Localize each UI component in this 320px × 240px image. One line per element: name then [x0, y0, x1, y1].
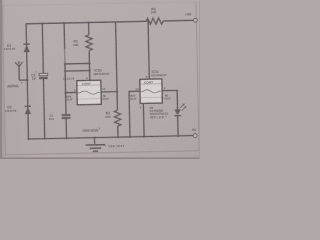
- wire: IC1c CONT pin to rail: [148, 21, 149, 79]
- paper background: [0, 0, 200, 159]
- junction: lower stub at R1 node: [88, 69, 90, 71]
- wire: IC1b right pin stub to junction: [101, 91, 117, 93]
- junction: pins 12,13,14 net on top rail: [63, 22, 65, 24]
- junction: lower stub at pins net: [64, 70, 66, 72]
- wire: pins 12,13,14 vertical net lower segment: [65, 64, 66, 114]
- diode D1: [23, 44, 30, 52]
- junction: R1 on top rail: [87, 21, 89, 23]
- junction: diode net at 0V rail: [27, 138, 29, 140]
- node: 0V terminal: [193, 134, 197, 138]
- scan grain overlay: [0, 0, 200, 159]
- junction: LED cathode at 0V rail: [177, 135, 179, 137]
- aerial symbol: [15, 61, 23, 67]
- wire: C2 lower lead to 0V rail: [65, 119, 67, 138]
- wire: C1 lower lead to 0V rail: [43, 79, 44, 139]
- capacitor C1: [35, 70, 48, 79]
- wire: LED cathode lead to 0V rail: [177, 116, 179, 136]
- junction: IC1b left pin at pins net: [64, 91, 66, 93]
- junction: IC1c left pin dropper at 0V rail: [129, 136, 131, 138]
- node: +9V terminal: [193, 18, 197, 22]
- op-amp block IC1b: [77, 80, 101, 105]
- junction: C1 branch on top rail: [41, 22, 43, 24]
- wire: +V top rail: [26, 21, 147, 24]
- wire: IC1c bottom pin dropper to 0V rail: [142, 103, 145, 136]
- wire: left vertical (aerial/diode net): [26, 24, 28, 139]
- page shading gradient: [0, 0, 200, 159]
- junction: C1 lead at 0V rail: [44, 138, 46, 140]
- junction: upper stub at pins net: [64, 63, 66, 65]
- op-amp block IC1c: [140, 79, 162, 104]
- wire: IC1b left pin stub: [66, 91, 77, 93]
- wire: R1 top lead from rail: [88, 23, 90, 35]
- diode D2: [25, 106, 32, 114]
- wire: rail dropper to IC1b output node: [116, 22, 118, 110]
- wire: IC1c left pin stub: [129, 90, 140, 92]
- page edge shadows: [0, 0, 2, 159]
- wire: IC1c left pin dropper to 0V rail: [128, 91, 131, 137]
- wire: pins 12,13,14 vertical net faint middle segment: [64, 49, 66, 64]
- junction: C2 lead at 0V rail: [65, 137, 67, 139]
- wire: top rail right segment to +9V terminal: [163, 19, 193, 22]
- junction: upper stub at R1 node: [88, 62, 90, 64]
- junction: IC1c CONT dropper on top rail: [147, 20, 149, 22]
- wire: 0V bottom rail: [28, 136, 193, 139]
- frame border: [2, 2, 199, 155]
- resistor R2: [114, 110, 121, 126]
- resistor R3: [146, 18, 163, 25]
- junction: aerial link to diode net: [26, 79, 28, 81]
- capacitor C2: [62, 114, 71, 119]
- junction: IC1b output node: [116, 90, 118, 92]
- LED D3: [174, 103, 187, 115]
- wire: C1 vertical branch: [42, 23, 43, 73]
- resistor R1: [86, 35, 93, 51]
- wire: aerial stem: [18, 66, 20, 80]
- wire: aerial horizontal link to diode net: [19, 79, 27, 81]
- wire: pins 12,13,14 vertical net upper segment: [63, 23, 66, 49]
- wire: upper stub joining pins 12,13,14 net to R1 node: [65, 62, 89, 65]
- ground symbol: [85, 137, 105, 151]
- junction: R2 lead at 0V rail: [117, 136, 119, 138]
- junction: IC1c bottom pin dropper at 0V rail: [143, 135, 145, 137]
- wire: lower stub joining pins 12,13,14 net to R1 node: [65, 70, 89, 73]
- junction: ground symbol at 0V rail: [93, 137, 95, 139]
- wire: LED anode dropper: [176, 90, 178, 110]
- wire: R2 bottom lead to 0V rail: [117, 126, 119, 137]
- wire: R1 bottom lead to IC1b CONT pin: [88, 51, 91, 81]
- wire: IC1c right pin stub: [162, 89, 178, 91]
